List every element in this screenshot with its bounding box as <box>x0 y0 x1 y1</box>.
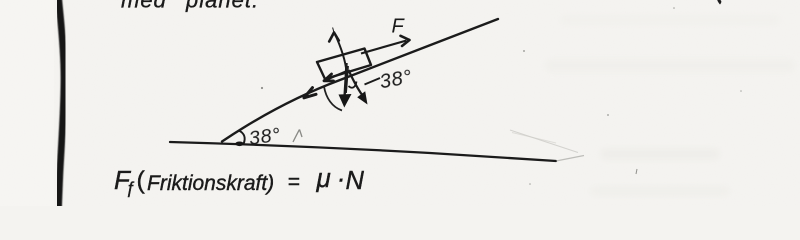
faint scan streak bottom right <box>590 186 730 196</box>
paper speck <box>636 169 637 174</box>
paper speck <box>523 50 525 52</box>
label 38 deg at block <box>378 66 414 93</box>
svg-text:38°: 38° <box>248 124 283 150</box>
curved arc left of down arrow <box>324 87 342 111</box>
short arrow to block corner <box>327 71 347 80</box>
paper speck <box>261 87 263 89</box>
block on incline <box>317 49 371 80</box>
up arrow (normal force) <box>335 33 347 72</box>
faint pencil wedge lines <box>510 130 578 153</box>
ground line faint tail <box>556 156 584 162</box>
small angle arc at block <box>349 82 357 88</box>
paper speck <box>607 114 609 116</box>
force F arrow <box>361 41 407 54</box>
notebook spine line <box>59 0 65 208</box>
down arrow (gravity) <box>345 63 347 98</box>
svg-text:med: med <box>121 0 167 13</box>
svg-text:μ: μ <box>316 163 331 193</box>
svg-text:=: = <box>288 171 300 194</box>
svg-text:F: F <box>392 16 406 38</box>
faint scan streak mid right <box>600 148 720 160</box>
faint scan streak upper right <box>560 15 780 25</box>
small caret mark <box>293 130 302 143</box>
ground line <box>170 142 556 161</box>
paper speck <box>529 183 531 185</box>
svg-text:planet.: planet. <box>185 0 259 13</box>
incline line <box>222 19 498 142</box>
down-right arrow <box>349 70 365 98</box>
svg-text:N: N <box>346 167 365 195</box>
arrowhead down-slope on incline <box>304 88 316 98</box>
svg-text:(: ( <box>137 167 146 195</box>
stray comma mark top right <box>717 0 721 5</box>
faint scan streak top right <box>545 59 795 72</box>
svg-text:Friktionskraft): Friktionskraft) <box>147 172 274 195</box>
svg-text:ƒ: ƒ <box>126 178 135 197</box>
paper speck <box>740 90 742 92</box>
angle arc at vertex <box>239 131 245 145</box>
paper speck <box>673 7 675 9</box>
dash before block label <box>365 78 381 85</box>
ink blob on ground at vertex <box>235 142 243 147</box>
